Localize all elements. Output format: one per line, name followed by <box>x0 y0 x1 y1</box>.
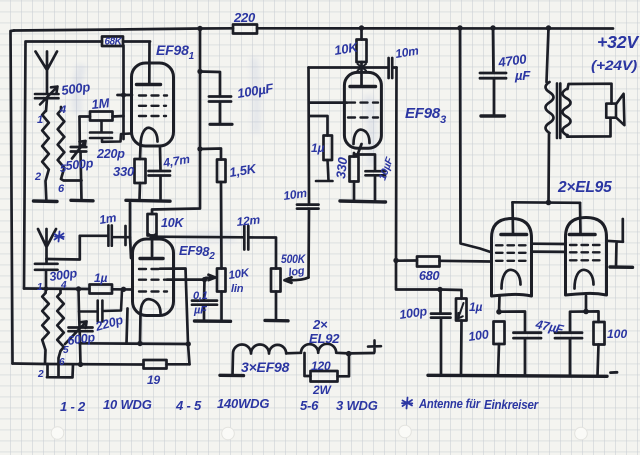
wire cathode EL95 2 <box>570 296 599 333</box>
resistor 1M <box>80 112 124 121</box>
ground bar coil L1 <box>34 199 58 203</box>
wire choke output <box>346 351 374 357</box>
svg-text:µF: µF <box>514 68 531 83</box>
antenna 1 <box>36 52 58 94</box>
label 100p <box>398 304 428 322</box>
wire cathode split EF98 3 <box>354 144 375 171</box>
resistor 100 right <box>594 322 605 376</box>
svg-text:0,1: 0,1 <box>193 290 208 302</box>
resistor 10K anode EF98 2 <box>148 214 157 256</box>
label 300p <box>48 266 78 284</box>
tube EF98 2 anode bar <box>140 257 163 260</box>
ground bar EF98 3 <box>340 201 386 202</box>
ground bus bottom right <box>428 375 607 376</box>
label 220 <box>233 10 256 25</box>
plus terminal <box>368 340 381 351</box>
svg-text:log: log <box>288 265 306 279</box>
tube EL95 1 envelope <box>492 219 532 297</box>
choke 3xEF98 heater <box>233 344 349 375</box>
label 1u screen <box>311 141 324 155</box>
wiper arrow pot 10K <box>206 275 216 280</box>
svg-text:Einkreiser: Einkreiser <box>484 398 539 412</box>
label 19 <box>147 373 160 387</box>
wire anode drops EL95 <box>513 202 581 233</box>
wire grid bus x124 <box>122 46 125 140</box>
wire links between EL95 <box>532 244 566 252</box>
label 68K <box>105 37 123 48</box>
transformer primary <box>546 28 554 202</box>
chassis bar under 100uF <box>210 123 232 126</box>
label footnote text 2 <box>484 398 539 412</box>
label 120 <box>311 359 331 373</box>
svg-text:330: 330 <box>113 164 135 179</box>
resistor 120 <box>305 353 350 382</box>
ground bar 500K <box>265 319 288 323</box>
tube EL95 2 envelope <box>566 218 607 296</box>
tube EL95 2 cathode <box>575 270 594 289</box>
svg-text:1µ: 1µ <box>311 141 324 155</box>
label 12m <box>236 213 261 229</box>
label 100uF <box>236 80 275 101</box>
ground bar coil L2 <box>71 199 93 203</box>
svg-text:100: 100 <box>467 327 489 344</box>
wire screen tap to pot <box>167 277 207 282</box>
svg-text:EL92: EL92 <box>309 331 340 346</box>
label EF98 1 <box>156 42 195 62</box>
capacitor 100p <box>431 290 451 376</box>
label 10K plate1 <box>161 216 185 230</box>
label 6 tap <box>58 183 65 195</box>
svg-text:1: 1 <box>37 114 43 126</box>
svg-text:68K: 68K <box>105 37 123 48</box>
label 500p upper <box>60 79 91 98</box>
wire grid drop from ground bar <box>126 203 132 258</box>
capacitor 0,1uF <box>192 280 217 321</box>
label 4,7m <box>161 152 191 170</box>
capacitor 10uF EF98 3 <box>366 171 386 201</box>
svg-text:6: 6 <box>59 357 65 368</box>
svg-text:Antenne für: Antenne für <box>418 397 481 411</box>
trimmer capacitor 500p <box>71 141 86 159</box>
variable capacitor 500p <box>35 87 59 105</box>
wire grid line EF98 2 <box>24 286 126 292</box>
label 1u grid <box>94 271 107 285</box>
node rail junction dots <box>197 25 551 31</box>
svg-text:500p: 500p <box>65 156 95 173</box>
label 680 <box>419 269 440 283</box>
label 4 tap <box>59 104 66 116</box>
label 330 rot <box>333 156 350 180</box>
label footnote text <box>418 397 481 411</box>
wire anode supply x200 <box>152 29 203 215</box>
wire bus x309 <box>307 68 310 205</box>
label 10m upper <box>394 43 420 61</box>
tube EF98 1 grid dashes <box>139 96 167 117</box>
tube EF98 3 envelope <box>344 72 381 148</box>
resistor 1,5K <box>217 160 226 183</box>
chassis bar 4700uF <box>481 114 505 117</box>
label winding note 4-5 <box>175 398 202 413</box>
tube EF98 2 grid dashes <box>139 269 167 292</box>
label winding note 5-6 <box>300 398 319 413</box>
capacitor 1m <box>80 225 130 245</box>
wire x309 lower to wiper <box>307 209 310 278</box>
label footnote asterisk <box>402 398 412 409</box>
label 5 tap b <box>63 345 69 356</box>
label winding note 140WDG <box>217 396 269 411</box>
label 3xEF98 <box>241 359 290 375</box>
label 2 tap b <box>37 369 44 380</box>
label 10K lin <box>228 267 251 295</box>
tube EF98 1 anode bar <box>137 83 161 86</box>
wire branch to 1,5K <box>200 149 221 160</box>
svg-text:2: 2 <box>34 171 41 183</box>
wire heater riser x189 <box>160 269 191 365</box>
svg-text:µF: µF <box>193 305 207 317</box>
wire top +V rail <box>14 28 613 30</box>
speaker <box>606 94 624 125</box>
label 4700 uF <box>496 51 531 83</box>
svg-text:lin: lin <box>231 283 244 295</box>
wire anode EF98 2 to 12m <box>152 237 276 269</box>
resistor 680 <box>396 257 490 267</box>
coil L2 winding 4-6 <box>58 107 82 181</box>
label 2W <box>312 383 332 397</box>
svg-text:4: 4 <box>60 280 67 291</box>
label winding note 1-2 <box>60 399 86 414</box>
resistor 19 <box>144 360 190 369</box>
svg-text:10 WDG: 10 WDG <box>103 397 152 412</box>
wire inner border with grid feed <box>24 42 102 289</box>
antenna 2 <box>38 229 56 262</box>
svg-text:19: 19 <box>147 373 160 387</box>
trimmer capacitor 600p <box>65 322 93 345</box>
tube EL95 2 grid dashes <box>570 245 601 260</box>
label EF98 3 <box>405 105 446 126</box>
wire g-feed y67 <box>309 66 388 69</box>
label asterisk top <box>55 232 64 242</box>
label 2xEL95 <box>557 179 612 196</box>
coil L2b winding <box>57 290 64 378</box>
label +24V <box>591 57 638 73</box>
capacitor 10m top <box>389 58 397 78</box>
wire EL95 2 to speaker column <box>607 219 624 267</box>
wire 600p down to bottom bus <box>79 312 81 365</box>
svg-text:+32V: +32V <box>597 32 640 52</box>
label 1M <box>91 95 111 112</box>
transformer secondary <box>563 89 571 135</box>
wire grid EF98 3 <box>309 101 347 104</box>
potentiometer 500K log <box>271 269 281 320</box>
svg-text:2×EL95: 2×EL95 <box>557 179 612 196</box>
capacitor 47uF left <box>514 333 542 376</box>
capacitor 220p lower <box>79 289 123 321</box>
capacitor 4,7m <box>149 147 171 200</box>
tube EL95 1 grid dashes <box>496 245 528 260</box>
label 500p lower <box>65 156 95 173</box>
label +32V <box>597 32 640 52</box>
svg-text:1M: 1M <box>91 95 111 112</box>
wire cathode EF98 2 down <box>139 314 142 344</box>
wire cathode EL95 1 <box>496 296 525 332</box>
label winding note 3WDG <box>336 398 378 413</box>
tube EF98 1 envelope <box>132 63 174 146</box>
coil L1 winding 1-2 <box>42 98 49 199</box>
svg-text:5-6: 5-6 <box>300 398 319 413</box>
wire grid stub into tube <box>118 92 133 97</box>
label winding note 10WDG <box>103 397 152 412</box>
resistor 1u screen <box>316 136 333 182</box>
label 10K osc <box>333 39 360 58</box>
label 1,5K <box>228 161 258 180</box>
capacitor 100uF <box>209 97 231 124</box>
svg-text:12m: 12m <box>236 213 261 229</box>
tube EF98 3 anode bar <box>350 85 376 88</box>
tube EL95 2 anode bar <box>570 233 596 237</box>
svg-text:1m: 1m <box>98 210 117 227</box>
resistor 1u bias pot <box>440 290 467 376</box>
label 500K log <box>281 254 306 279</box>
svg-text:330: 330 <box>333 156 350 180</box>
capacitor 220p <box>90 121 131 142</box>
wire riser to tube <box>127 309 128 344</box>
svg-text:220: 220 <box>233 10 256 25</box>
wire anode line EL95 <box>513 200 581 206</box>
label 1m <box>98 210 117 227</box>
svg-text:2: 2 <box>37 369 44 380</box>
label 47uF <box>533 317 565 337</box>
label 1 tap <box>37 114 43 126</box>
wire antenna tap to 1m <box>46 236 80 260</box>
svg-text:1 - 2: 1 - 2 <box>60 399 86 414</box>
wire heater bus y343 <box>80 341 189 346</box>
label 2 tap <box>34 171 41 183</box>
label 100 right <box>607 327 628 341</box>
potentiometer 10K lin <box>217 269 226 321</box>
svg-text:1µ: 1µ <box>94 271 107 285</box>
wire secondary to speaker <box>567 84 612 137</box>
resistor 330 EF98 3 <box>350 157 359 202</box>
capacitor 47uF right <box>555 333 582 376</box>
label 220p lower <box>93 313 125 335</box>
svg-text:680: 680 <box>419 269 440 283</box>
svg-text:2×: 2× <box>312 317 328 332</box>
resistor 68K box <box>102 37 123 47</box>
ground bar pot stage <box>195 319 231 323</box>
capacitor 12m <box>244 226 248 250</box>
svg-text:120: 120 <box>311 359 331 373</box>
wire 1,5K down to volume pot <box>220 182 223 269</box>
capacitor 10m lower <box>297 205 319 209</box>
label 220p upper <box>96 147 125 161</box>
wire coil tap bar y377 <box>47 364 73 377</box>
capacitor 4700uF <box>480 28 506 115</box>
label 10uF rot <box>377 155 397 182</box>
tube EF98 2 envelope <box>133 239 174 316</box>
wire screen feed x460 <box>460 28 491 252</box>
tube EL95 1 cathode <box>502 270 521 289</box>
wire bottom bus y364 <box>13 362 144 367</box>
chassis bar right <box>610 265 633 269</box>
svg-text:140WDG: 140WDG <box>217 396 269 411</box>
ground bar choke <box>220 374 244 378</box>
wire 68K to tube grid cap <box>123 42 150 85</box>
svg-text:220p: 220p <box>96 147 125 161</box>
coil L1b winding <box>42 293 49 364</box>
svg-text:4 - 5: 4 - 5 <box>175 398 202 413</box>
tube EF98 3 grid dashes <box>348 103 378 118</box>
svg-text:100: 100 <box>607 327 628 341</box>
label 330 <box>113 164 135 179</box>
wire bus x396 <box>393 68 442 293</box>
svg-text:5: 5 <box>63 345 69 356</box>
tube EF98 3 cathode <box>354 130 370 144</box>
wire to 1u screen resistor <box>309 116 328 136</box>
resistor 220 <box>233 25 257 34</box>
svg-text:4: 4 <box>59 104 66 116</box>
wire left outer border down to bottom <box>11 31 15 364</box>
transformer core <box>557 83 560 138</box>
svg-text:3 WDG: 3 WDG <box>336 398 378 413</box>
minus tick <box>611 371 618 374</box>
label 5 tap <box>60 163 67 175</box>
wire trimmer branch x80 <box>80 117 82 200</box>
label 10m lower <box>282 186 308 203</box>
label 1 tap b <box>37 282 43 293</box>
label 0,1 uF <box>193 290 208 317</box>
resistor 330 <box>135 159 146 199</box>
label EF98 2 <box>179 243 215 262</box>
tube EL95 1 anode bar <box>501 233 527 237</box>
resistor 1u grid <box>90 285 133 294</box>
resistor 100 left <box>494 322 505 376</box>
tube EF98 2 cathode <box>141 299 161 314</box>
svg-text:3×EF98: 3×EF98 <box>241 359 290 375</box>
wire cathode to 330 <box>139 146 142 159</box>
svg-text:2W: 2W <box>312 383 332 397</box>
svg-text:10K: 10K <box>161 216 185 230</box>
label 2x EL92 <box>309 317 340 346</box>
wire branch to 100uF <box>200 72 220 97</box>
label 1u bias <box>469 300 482 314</box>
capacitor 300p <box>35 264 58 293</box>
resistor 10K EF98 3 <box>357 28 367 86</box>
svg-text:(+24V): (+24V) <box>591 57 638 73</box>
label 6 tap b <box>59 357 65 368</box>
svg-text:1µ: 1µ <box>469 300 482 314</box>
wiper arrow 500K <box>285 277 309 283</box>
label 600p <box>66 330 96 348</box>
tube EF98 1 cathode <box>141 128 158 146</box>
label 100 left <box>467 327 489 344</box>
label 4 tap b <box>60 280 67 291</box>
svg-text:1: 1 <box>37 282 43 293</box>
ground bar under 330 <box>126 199 170 203</box>
